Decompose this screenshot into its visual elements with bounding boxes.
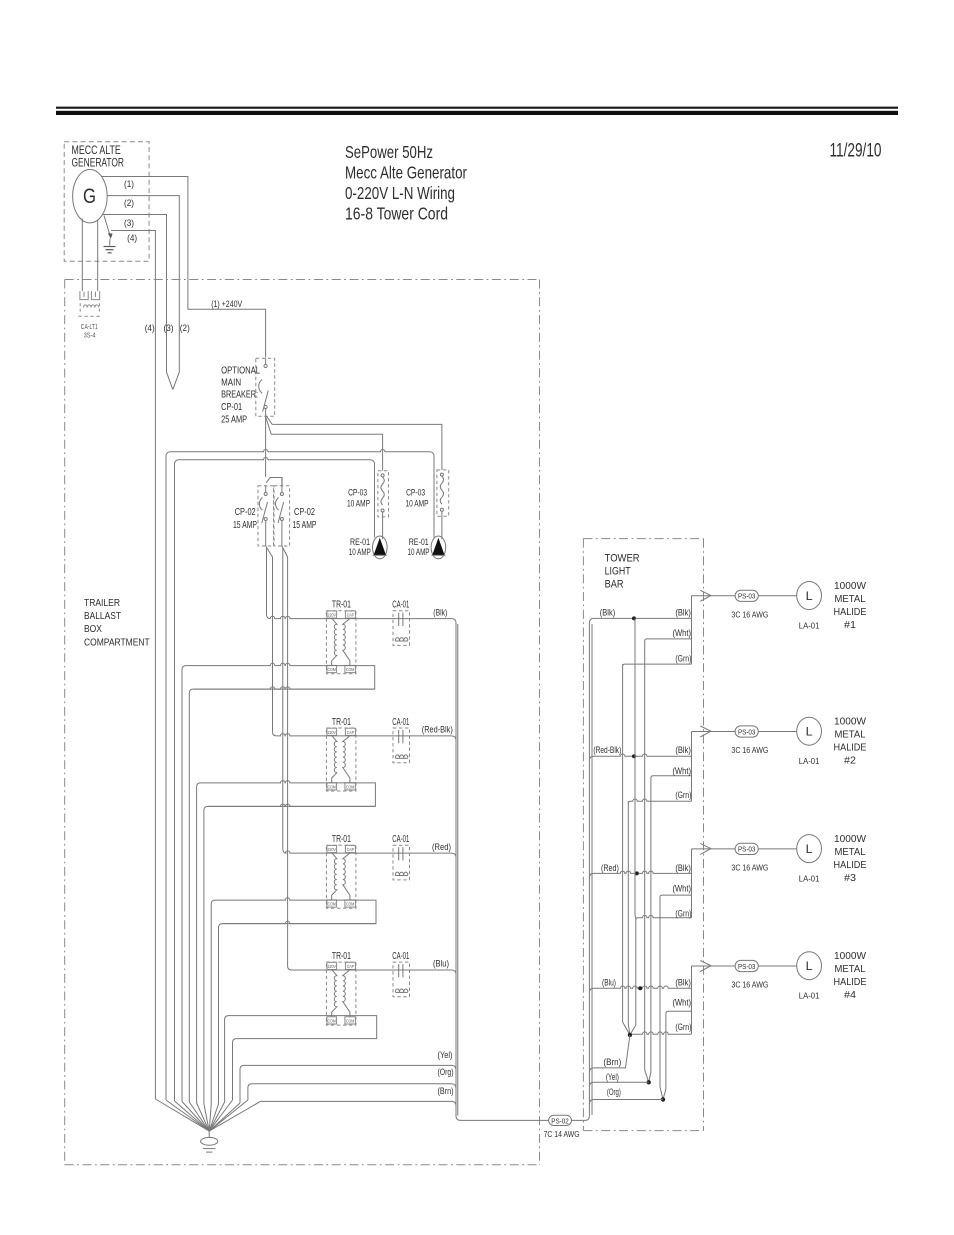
svg-text:25 AMP: 25 AMP	[221, 414, 247, 426]
ground riser row1 (Grn)	[623, 664, 630, 1035]
svg-text:(Red): (Red)	[432, 842, 451, 852]
svg-text:(Red-Blk): (Red-Blk)	[593, 745, 621, 755]
svg-text:BAR: BAR	[605, 578, 624, 590]
breaker CP-02 dashed boxes	[258, 486, 274, 546]
trunk wire to row 4	[287, 557, 289, 966]
tower light bar border (dash-dot)	[583, 539, 703, 1131]
lamp circuit 4: PS-03 + LA-01	[692, 952, 822, 1001]
ballast row 3: transformer TR-01 + capacitor CA-01	[326, 834, 409, 908]
ground symbol (generator)	[104, 247, 116, 253]
neutral riser row4 (Wht)	[663, 1013, 666, 1099]
svg-text:MECC ALTE: MECC ALTE	[72, 145, 122, 157]
svg-text:(Blk): (Blk)	[675, 863, 691, 873]
breaker CP-02 left pole contacts	[259, 486, 267, 546]
tower row 3 neutral (Wht)	[660, 895, 692, 897]
svg-text:(1): (1)	[124, 179, 134, 190]
tower row 2 hot wire (Red-Blk -> Blk)	[589, 754, 691, 761]
MECC ALTE GENERATOR enclosure (dashed box)	[64, 142, 149, 262]
svg-text:BALLAST: BALLAST	[84, 610, 121, 622]
ground riser row2 (Grn)	[628, 801, 630, 1035]
tower light bar label	[605, 552, 640, 590]
row 4 feed wire (Blu)	[288, 966, 456, 975]
svg-text:1000W: 1000W	[834, 833, 866, 845]
lamp exit riser 3	[691, 849, 693, 918]
riser with taps (rows 1-3 junction column)	[630, 618, 636, 1035]
wire (2) generator lead	[107, 196, 179, 390]
svg-text:(Grn): (Grn)	[675, 654, 691, 664]
ballast row 1: transformer TR-01 + capacitor CA-01	[326, 600, 409, 674]
svg-text:(Grn): (Grn)	[675, 1022, 691, 1032]
indicator lamp RE-01 #1	[373, 536, 388, 559]
svg-text:(Grn): (Grn)	[675, 790, 691, 800]
svg-text:CP-02: CP-02	[294, 507, 315, 518]
svg-text:(Wht): (Wht)	[673, 884, 692, 894]
svg-text:BREAKER:: BREAKER:	[221, 389, 258, 401]
breaker CP-01 (dashed box + contact symbol)	[256, 358, 275, 416]
return bus B (y460) from ladder to RE-01 #1	[175, 457, 375, 1101]
generator ground lead with arrow	[104, 216, 110, 237]
node row1 blk	[632, 616, 636, 620]
svg-text:(Brn): (Brn)	[438, 1086, 454, 1096]
svg-text:7C 14 AWG: 7C 14 AWG	[544, 1129, 580, 1139]
row 4 COM return loop	[225, 1016, 377, 1102]
trunk wire to row 3	[282, 548, 284, 849]
svg-text:(Red): (Red)	[601, 863, 619, 873]
tower row 4 ground (Grn)	[630, 1032, 692, 1035]
tower row 3 hot wire (Red -> Blk)	[589, 871, 691, 878]
svg-text:BOX: BOX	[84, 623, 102, 635]
svg-text:11/29/10: 11/29/10	[830, 141, 882, 162]
return wire (Brn)	[260, 1101, 456, 1106]
neutral riser row1 (Wht)	[645, 641, 649, 1082]
row 3 feed wire (Red)	[283, 849, 456, 858]
tower row 1 ground (Grn)	[623, 664, 692, 666]
bus wire lower (to CP-03 #1)	[271, 434, 382, 471]
svg-text:HALIDE: HALIDE	[834, 976, 867, 988]
wire (Org) tower	[589, 1100, 663, 1104]
svg-text:(Brn): (Brn)	[603, 1057, 621, 1067]
lighting coil CA-LT1	[78, 303, 101, 316]
svg-text:(1) +240V: (1) +240V	[211, 299, 242, 310]
return wire (Org)	[248, 1084, 456, 1100]
svg-text:(3): (3)	[164, 323, 174, 334]
svg-text:COMPARTMENT: COMPARTMENT	[84, 637, 150, 649]
ground bond node	[628, 1033, 632, 1037]
trunk wire to row 1	[266, 548, 268, 615]
trailer box label	[84, 597, 150, 649]
breaker CP-01 label	[221, 365, 260, 426]
svg-text:(Blk): (Blk)	[675, 978, 691, 988]
title block text	[345, 142, 467, 224]
svg-text:0-220V L-N Wiring: 0-220V L-N Wiring	[345, 183, 455, 203]
svg-text:LIGHT: LIGHT	[605, 566, 631, 578]
top double rule	[56, 107, 898, 115]
svg-text:(Yel): (Yel)	[606, 1072, 619, 1082]
svg-text:(Grn): (Grn)	[675, 909, 691, 919]
return wire (Yel)	[240, 1065, 456, 1103]
tower bar inner riser (second conductor line)	[591, 624, 593, 1115]
svg-text:PS-02: PS-02	[551, 1116, 569, 1125]
svg-text:CP-03: CP-03	[406, 488, 425, 499]
svg-text:(Wht): (Wht)	[673, 628, 692, 638]
svg-text:(Yel): (Yel)	[438, 1050, 453, 1060]
svg-text:CP-02: CP-02	[235, 507, 256, 518]
svg-text:(Blk): (Blk)	[433, 607, 447, 617]
svg-text:TRAILER: TRAILER	[84, 597, 120, 609]
indicator lamp RE-01 #2	[431, 536, 446, 559]
svg-text:HALIDE: HALIDE	[834, 606, 867, 618]
svg-text:CP-03: CP-03	[348, 488, 367, 499]
tower cord wire into tower bar	[572, 618, 594, 1120]
neutral bond node 2	[661, 1097, 665, 1101]
svg-text:Mecc Alte Generator: Mecc Alte Generator	[345, 163, 467, 183]
svg-text:MAIN: MAIN	[221, 377, 241, 389]
row 2 feed wire (Red-Blk)	[273, 732, 457, 741]
breaker CP-03 #1	[378, 471, 389, 517]
lamp exit riser 2	[691, 732, 693, 802]
svg-text:#1: #1	[844, 619, 856, 631]
svg-text:#4: #4	[844, 989, 856, 1001]
lamp exit riser 1	[691, 596, 693, 664]
ground symbol (ballast common)	[201, 1131, 218, 1152]
svg-text:1000W: 1000W	[834, 950, 866, 962]
tower row 4 hot wire (Blu -> Blk)	[589, 986, 691, 993]
lamp circuit 2: PS-03 + LA-01	[692, 717, 822, 766]
CP-01 output split diagonals	[266, 416, 272, 425]
svg-text:(Wht): (Wht)	[673, 998, 692, 1008]
svg-text:1000W: 1000W	[834, 580, 866, 592]
lamp circuit 3: PS-03 + LA-01	[692, 835, 822, 884]
svg-text:(Org): (Org)	[438, 1067, 454, 1077]
return bus A (y452) from ladder to RE-01 #2	[166, 449, 434, 1100]
svg-text:(2): (2)	[124, 198, 134, 209]
row 1 feed wire (Blk) to bundle	[267, 615, 549, 1121]
ground fan convergence	[155, 1099, 260, 1131]
svg-text:CP-01: CP-01	[221, 401, 242, 413]
svg-text:(4): (4)	[145, 323, 155, 334]
svg-text:G: G	[83, 185, 96, 208]
row 2 COM return loop	[197, 781, 376, 1104]
tower cord connector PS-02	[549, 1115, 572, 1125]
trailer ballast box compartment border (dash-dot)	[65, 280, 540, 1165]
tower row 2 ground (Grn)	[628, 799, 691, 804]
svg-text:(4): (4)	[127, 233, 137, 244]
svg-text:METAL: METAL	[835, 729, 866, 741]
CP-01 main output down to CP-02	[265, 416, 267, 477]
trunk wire to row 2	[272, 557, 274, 732]
svg-text:15 AMP: 15 AMP	[233, 520, 257, 531]
svg-text:HALIDE: HALIDE	[834, 742, 867, 754]
svg-text:RE-01: RE-01	[409, 537, 429, 547]
breaker CP-02 labels	[233, 507, 317, 531]
ballast row 4: transformer TR-01 + capacitor CA-01	[326, 951, 409, 1025]
svg-text:10 AMP: 10 AMP	[406, 499, 429, 510]
svg-text:OPTIONAL: OPTIONAL	[221, 365, 260, 377]
svg-text:SePower 50Hz: SePower 50Hz	[345, 142, 433, 162]
CP-02 output jogs	[266, 546, 273, 557]
svg-text:3S-4: 3S-4	[84, 330, 96, 339]
wire (4) generator lead	[111, 231, 155, 1100]
tower row 1 hot wire (Blk)	[594, 617, 692, 619]
svg-text:GENERATOR: GENERATOR	[72, 157, 125, 169]
svg-text:1000W: 1000W	[834, 716, 866, 728]
wire (1) generator lead	[102, 177, 266, 358]
bundle second wire	[457, 624, 459, 1116]
svg-text:#2: #2	[844, 755, 856, 767]
svg-text:(2): (2)	[180, 323, 190, 334]
svg-text:(Blu): (Blu)	[602, 978, 616, 988]
svg-text:METAL: METAL	[835, 963, 866, 975]
tower row 3 ground (Grn)	[636, 915, 692, 920]
breaker CP-02 top bridge	[266, 478, 282, 486]
svg-text:(Blu): (Blu)	[433, 959, 449, 969]
wire (3) generator lead	[102, 215, 173, 390]
svg-text:METAL: METAL	[835, 846, 866, 858]
neutral bond node 1	[647, 1080, 651, 1084]
svg-text:RE-01: RE-01	[350, 537, 370, 547]
svg-text:METAL: METAL	[835, 593, 866, 605]
svg-text:(Org): (Org)	[607, 1087, 621, 1097]
row 3 COM return loop	[211, 898, 376, 1105]
svg-text:(3): (3)	[124, 218, 134, 229]
svg-text:10 AMP: 10 AMP	[408, 547, 430, 557]
breaker CP-03 #2	[437, 470, 449, 516]
svg-text:(Red-Blk): (Red-Blk)	[422, 725, 453, 735]
generator G1 circle	[73, 170, 108, 223]
svg-text:10 AMP: 10 AMP	[347, 499, 370, 510]
svg-text:10 AMP: 10 AMP	[349, 547, 371, 557]
lamp exit riser 4	[691, 966, 693, 1034]
tower row 2 neutral (Wht)	[651, 776, 692, 778]
neutral riser row2 (Wht)	[649, 778, 651, 1082]
svg-text:TOWER: TOWER	[605, 552, 640, 564]
neutral riser row3 (Wht)	[660, 897, 663, 1099]
ballast row 2: transformer TR-01 + capacitor CA-01	[326, 717, 409, 791]
tower row 1 neutral (Wht)	[645, 639, 692, 641]
svg-text:15 AMP: 15 AMP	[293, 520, 317, 531]
tower row 4 neutral (Wht)	[666, 1011, 692, 1013]
row 1 COM return loop	[182, 663, 375, 1102]
generator bottom leads to CA-LT1	[81, 219, 83, 292]
svg-text:HALIDE: HALIDE	[834, 859, 867, 871]
svg-text:16-8 Tower Cord: 16-8 Tower Cord	[345, 204, 448, 224]
svg-text:(Blk): (Blk)	[675, 745, 691, 755]
svg-text:#3: #3	[844, 872, 856, 884]
svg-text:(Wht): (Wht)	[673, 766, 692, 776]
breaker CP-02 right pole contacts	[276, 478, 284, 547]
svg-text:(Blk): (Blk)	[600, 608, 615, 618]
lamp circuit 1: PS-03 + LA-01	[692, 582, 822, 631]
svg-text:(Blk): (Blk)	[675, 608, 691, 618]
wire (Yel) tower	[589, 1082, 648, 1086]
connector CA-LT1 terminals	[80, 291, 100, 300]
wire (Brn) tower	[589, 1035, 630, 1072]
bus wire upper (to CP-03 #2)	[272, 424, 442, 470]
